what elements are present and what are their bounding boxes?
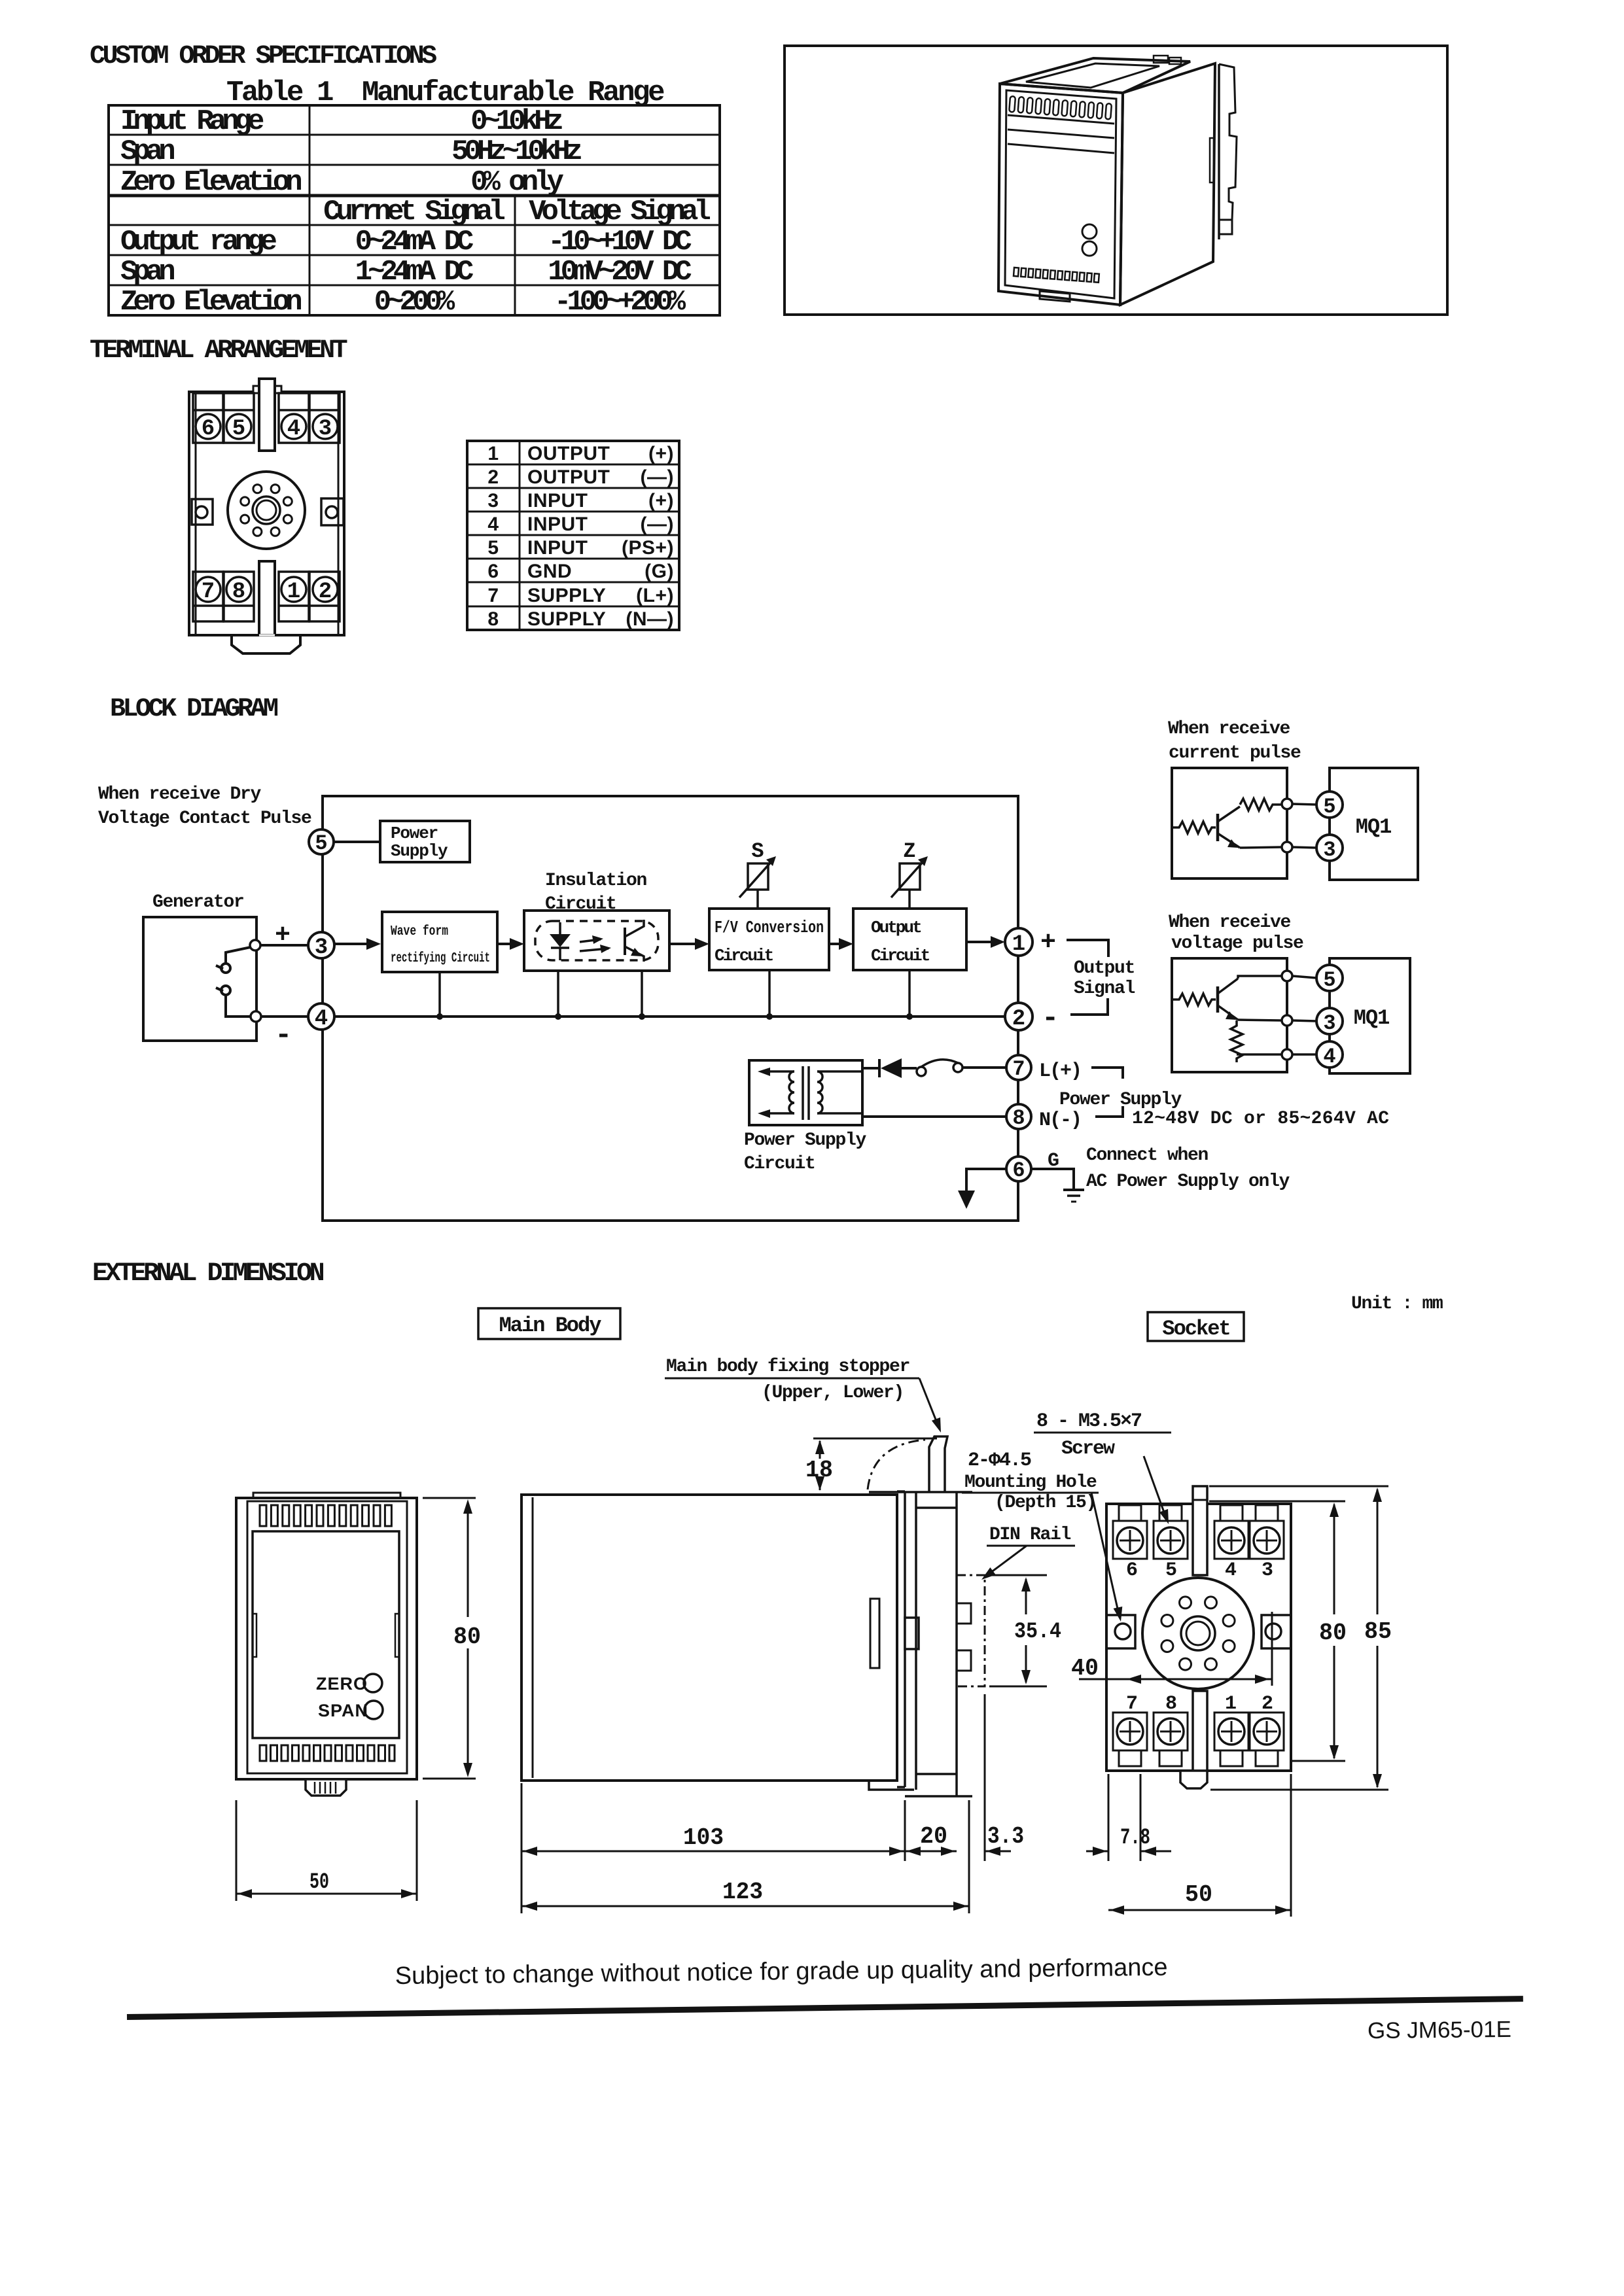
- stub: wave form block to return bus: [438, 972, 441, 1017]
- stub: output block to return bus: [908, 970, 911, 1017]
- dimension 18 (stopper height): [813, 1438, 937, 1490]
- trimmer S: [739, 861, 772, 897]
- stub: phototransistor emitter to return bus: [641, 971, 643, 1017]
- front adjuster holes: [1082, 224, 1097, 239]
- svg-text:(PS+): (PS+): [622, 537, 674, 559]
- svg-text:(N—): (N—): [626, 608, 674, 630]
- terminal 5 (voltage pulse): [1316, 965, 1343, 992]
- svg-text:8: 8: [232, 580, 245, 604]
- main body fixing stopper (side view): [929, 1436, 947, 1492]
- svg-text:Insulation: Insulation: [545, 871, 647, 891]
- junction node to pin 3 (voltage pulse): [1282, 1015, 1292, 1026]
- svg-text:2: 2: [1012, 1007, 1025, 1032]
- svg-text:3: 3: [1323, 1011, 1335, 1035]
- svg-text:50: 50: [309, 1870, 329, 1895]
- front bottom vent slots: [1014, 268, 1099, 283]
- terminal 4 (voltage pulse): [1316, 1041, 1343, 1069]
- socket top DIN tab: [1193, 1486, 1207, 1575]
- svg-text:1: 1: [1225, 1693, 1237, 1715]
- svg-text:4: 4: [1323, 1045, 1335, 1069]
- svg-text:5: 5: [1165, 1559, 1177, 1582]
- svg-text:1~24mA DC: 1~24mA DC: [355, 256, 474, 288]
- socket body outline: [189, 392, 344, 635]
- svg-text:Generator: Generator: [152, 892, 244, 913]
- svg-text:When receive: When receive: [1168, 719, 1290, 739]
- terminal 8: [1006, 1104, 1031, 1130]
- dimension 50 (socket width): [1108, 1774, 1291, 1917]
- terminal 6: [193, 393, 223, 443]
- svg-text:80: 80: [453, 1624, 481, 1650]
- svg-text:18: 18: [805, 1457, 833, 1484]
- svg-text:SUPPLY: SUPPLY: [527, 585, 606, 606]
- front view side latch notches: [253, 1614, 256, 1657]
- sender box (current pulse): [1172, 768, 1287, 878]
- side view body: [521, 1495, 897, 1781]
- svg-text:5: 5: [315, 831, 327, 856]
- svg-text:0% only: 0% only: [470, 166, 563, 199]
- ground note label: [1086, 1145, 1290, 1192]
- svg-text:GND: GND: [527, 561, 572, 582]
- transistor (voltage pulse): [1218, 979, 1238, 1020]
- transistor (current pulse): [1218, 807, 1240, 848]
- terminal 5: [309, 829, 334, 856]
- output circuit block: [853, 909, 966, 970]
- dimension 20: [905, 1851, 957, 1852]
- terminal 2: [1005, 1003, 1033, 1032]
- svg-text:2-Φ4.5: 2-Φ4.5: [968, 1450, 1031, 1472]
- svg-text:7.8: 7.8: [1120, 1826, 1150, 1851]
- screw terminal 2 (rear): [1250, 1713, 1284, 1766]
- dimension 80 (socket height): [1209, 1501, 1345, 1761]
- svg-text:7: 7: [487, 585, 499, 606]
- voltage pulse heading: [1169, 913, 1303, 954]
- terminal 5: [224, 393, 254, 443]
- DIN rail (phantom): [957, 1575, 985, 1686]
- svg-text:3: 3: [487, 490, 499, 512]
- socket pin holes (rear): [1161, 1597, 1235, 1670]
- wire: insulation to F/V conversion: [669, 943, 705, 945]
- svg-text:4: 4: [487, 513, 499, 535]
- stopper leader: [919, 1378, 938, 1426]
- dimension 123: [521, 1800, 969, 1913]
- wire: node to terminal 4 (voltage pulse): [1292, 1053, 1316, 1056]
- svg-text:L(+): L(+): [1039, 1060, 1081, 1083]
- wire: node to terminal 5 (current pulse): [1292, 804, 1316, 805]
- svg-text:Output: Output: [871, 918, 921, 937]
- svg-text:+: +: [1040, 928, 1056, 958]
- wire: terminal 5 to power supply block: [321, 841, 380, 843]
- svg-text:3: 3: [1323, 838, 1335, 862]
- svg-text:Signal: Signal: [1074, 979, 1135, 999]
- svg-text:7: 7: [1126, 1693, 1138, 1715]
- svg-text:5: 5: [487, 537, 499, 559]
- junction node to pin 5 (voltage pulse): [1282, 971, 1292, 981]
- power supply circuit label: [744, 1130, 867, 1174]
- socket bottom foot: [232, 635, 300, 653]
- svg-text:(—): (—): [641, 466, 674, 488]
- power supply block: [380, 821, 470, 862]
- wire: transformer to terminal 8: [862, 1115, 1006, 1118]
- junction node to pin 4 (voltage pulse): [1282, 1049, 1292, 1060]
- svg-text:When receive Dry: When receive Dry: [98, 784, 262, 805]
- terminal 7: [193, 572, 223, 621]
- dimension 3.3: [985, 1694, 1011, 1861]
- screw terminal 6 (rear): [1113, 1505, 1147, 1559]
- svg-text:7: 7: [202, 580, 215, 604]
- screw terminal 7 (rear): [1113, 1713, 1147, 1766]
- optocoupler LED: [559, 922, 561, 934]
- wire: terminal 6 to chassis arrow: [966, 1169, 1006, 1191]
- wire: shunt resistor to node 4 (voltage pulse): [1237, 1053, 1282, 1056]
- side view socket rear block: [869, 1492, 972, 1796]
- top clip details: [1154, 56, 1168, 63]
- current pulse heading: [1168, 719, 1301, 763]
- svg-text:2: 2: [1262, 1693, 1273, 1715]
- terminal 3 (current pulse): [1316, 835, 1343, 862]
- wire: emitter to node 3 (voltage pulse): [1238, 1020, 1282, 1020]
- terminal 4: [279, 393, 309, 443]
- svg-text:6: 6: [1012, 1158, 1025, 1183]
- screw terminal 3 (rear): [1250, 1505, 1284, 1559]
- svg-text:(+): (+): [648, 490, 674, 512]
- svg-text:MQ1: MQ1: [1356, 815, 1392, 839]
- collector resistor (current pulse): [1240, 799, 1282, 810]
- svg-text:MQ1: MQ1: [1354, 1006, 1390, 1030]
- svg-text:5: 5: [1323, 795, 1335, 819]
- trimmer Z: [891, 861, 924, 897]
- optocoupler light arrows: [580, 939, 601, 942]
- wire: node to terminal 5 (voltage pulse): [1292, 976, 1316, 978]
- svg-text:50: 50: [1185, 1881, 1212, 1908]
- terminal 2: [309, 572, 340, 621]
- F/V conversion circuit block: [709, 909, 829, 970]
- shunt resistor (voltage pulse): [1231, 1020, 1243, 1062]
- svg-text:S: S: [751, 839, 764, 863]
- output signal label: [1074, 958, 1135, 999]
- svg-text:3.3: 3.3: [987, 1823, 1024, 1850]
- side view front bezel line: [532, 1497, 534, 1778]
- dimension 103: [521, 1783, 905, 1913]
- 8 pin holes: [241, 485, 292, 536]
- svg-text:Output range: Output range: [120, 226, 276, 258]
- fuse: [917, 1060, 962, 1076]
- stub: F/V block to return bus: [768, 970, 771, 1017]
- socket front-view drawing: [167, 363, 383, 664]
- dimension 50 (front view width): [236, 1800, 417, 1901]
- svg-text:2: 2: [319, 580, 332, 604]
- wire: node to terminal 3 (voltage pulse): [1292, 1020, 1316, 1021]
- svg-text:103: 103: [683, 1824, 724, 1851]
- svg-text:Voltage Signal: Voltage Signal: [529, 196, 710, 228]
- bracket hook N(-): [1095, 1106, 1123, 1117]
- svg-text:Circuit: Circuit: [715, 946, 773, 965]
- terminal 1: [279, 572, 309, 621]
- svg-text:8 - M3.5×7: 8 - M3.5×7: [1036, 1410, 1141, 1433]
- front view inner bezel: [247, 1501, 407, 1773]
- wire: wave form to insulation circuit: [497, 943, 520, 945]
- front face: [998, 84, 1123, 305]
- front view bottom vent slots: [260, 1745, 395, 1761]
- wire: generator + to terminal 3: [260, 944, 321, 947]
- insulation circuit label: [545, 871, 647, 914]
- svg-text:When receive: When receive: [1169, 913, 1291, 933]
- svg-text:5: 5: [232, 417, 245, 442]
- wave form rectifying circuit block: [382, 912, 497, 972]
- svg-text:Main Body: Main Body: [499, 1313, 602, 1338]
- node label: When receive Dry Voltage Contact Pulse: [98, 784, 311, 829]
- wire: node to terminal 3 (current pulse): [1292, 847, 1316, 848]
- mounting hole leader: [1091, 1493, 1119, 1614]
- svg-text:3: 3: [1262, 1559, 1273, 1582]
- svg-text:Connect when: Connect when: [1086, 1145, 1209, 1166]
- svg-text:INPUT: INPUT: [527, 513, 588, 535]
- bracket hook L(+): [1091, 1068, 1123, 1079]
- svg-text:Output: Output: [1074, 958, 1135, 979]
- svg-text:OUTPUT: OUTPUT: [527, 443, 610, 464]
- side view rear bezel: [897, 1491, 919, 1787]
- screw spec leader: [1144, 1456, 1166, 1518]
- svg-text:0~10kHz: 0~10kHz: [470, 105, 562, 138]
- svg-text:6: 6: [487, 561, 499, 582]
- screw terminal 5 (rear): [1154, 1505, 1188, 1559]
- svg-text:INPUT: INPUT: [527, 490, 588, 512]
- svg-text:Currnet Signal: Currnet Signal: [323, 196, 504, 228]
- svg-text:Unit : mm: Unit : mm: [1351, 1294, 1443, 1314]
- generator + terminal: [250, 940, 260, 950]
- wire: trimmer Z to output block: [908, 890, 911, 909]
- dimension 40 (hole pitch): [1079, 1679, 1272, 1680]
- svg-text:80: 80: [1319, 1620, 1347, 1646]
- screw terminal 4 (rear): [1214, 1505, 1248, 1559]
- svg-text:-: -: [275, 1019, 292, 1052]
- svg-text:SUPPLY: SUPPLY: [527, 608, 606, 630]
- svg-text:Power Supply: Power Supply: [1059, 1090, 1182, 1110]
- svg-text:Main body fixing stopper: Main body fixing stopper: [666, 1357, 909, 1377]
- dimension 80 (front view height): [423, 1498, 476, 1779]
- left mounting hole (rear): [1106, 1615, 1135, 1648]
- svg-text:123: 123: [722, 1879, 763, 1905]
- insulation circuit block with optocoupler: [524, 911, 669, 971]
- generator - terminal: [251, 1011, 261, 1022]
- wire: trimmer S to F/V block: [756, 890, 759, 909]
- terminal assignment table: [461, 435, 687, 638]
- terminal 3: [309, 393, 340, 443]
- diode: [862, 1058, 917, 1078]
- socket centre boss (rear): [1142, 1578, 1254, 1689]
- input resistor (voltage pulse): [1172, 994, 1216, 1005]
- screw terminal 8 (rear): [1154, 1713, 1188, 1766]
- svg-text:+: +: [275, 921, 291, 950]
- svg-text:-: -: [1042, 1002, 1059, 1035]
- Socket caption box: [1148, 1312, 1244, 1341]
- svg-text:-10~+10V DC: -10~+10V DC: [548, 226, 692, 258]
- svg-text:8: 8: [1012, 1106, 1025, 1130]
- svg-text:1: 1: [287, 580, 300, 604]
- svg-text:10mV~20V DC: 10mV~20V DC: [548, 256, 692, 288]
- generator box: [143, 917, 256, 1041]
- wire: terminal 3 to wave form circuit: [334, 943, 377, 945]
- terminal 7: [1006, 1055, 1031, 1081]
- stopper swing arc (phantom): [868, 1440, 925, 1489]
- generator contact switch: [216, 947, 251, 1017]
- svg-text:40: 40: [1071, 1655, 1099, 1682]
- dimension 7.8: [1086, 1774, 1171, 1861]
- svg-text:Input Range: Input Range: [120, 105, 264, 138]
- output signal bracket bottom: [1070, 998, 1108, 1015]
- left mounting hole: [192, 499, 213, 525]
- svg-text:6: 6: [1126, 1559, 1138, 1582]
- svg-text:Span: Span: [120, 256, 174, 288]
- svg-text:85: 85: [1364, 1618, 1392, 1645]
- svg-text:(L+): (L+): [636, 585, 674, 606]
- svg-text:4: 4: [315, 1007, 328, 1032]
- front view top vent slots: [260, 1505, 391, 1526]
- terminal 8: [224, 572, 254, 621]
- svg-text:INPUT: INPUT: [527, 537, 588, 559]
- svg-text:AC Power Supply only: AC Power Supply only: [1086, 1172, 1290, 1192]
- output signal bracket top: [1067, 940, 1108, 957]
- terminal 6: [1006, 1157, 1031, 1183]
- front view top rim: [253, 1493, 400, 1498]
- signal return bus wire (terminal 4 to terminal 2): [334, 1015, 1006, 1018]
- svg-text:(+): (+): [648, 443, 674, 464]
- DIN rail grabs: [957, 1603, 971, 1624]
- side handle slot: [1210, 138, 1214, 183]
- svg-text:20: 20: [920, 1823, 947, 1850]
- svg-text:current pulse: current pulse: [1169, 743, 1301, 763]
- svg-text:Power: Power: [391, 824, 438, 843]
- power supply circuit transformer: [749, 1060, 862, 1125]
- svg-text:Socket: Socket: [1162, 1317, 1229, 1341]
- socket outline: [1106, 1504, 1291, 1771]
- optocoupler phototransistor: [624, 928, 626, 955]
- svg-text:-100~+200%: -100~+200%: [554, 286, 686, 319]
- svg-text:rectifying Circuit: rectifying Circuit: [391, 951, 490, 966]
- svg-text:8: 8: [1165, 1693, 1177, 1715]
- svg-text:(Upper, Lower): (Upper, Lower): [762, 1383, 904, 1403]
- front view outer case: [236, 1498, 417, 1779]
- junction node to pin 5 (current pulse): [1282, 799, 1292, 809]
- wire: F/V to output circuit: [829, 943, 849, 945]
- svg-text:35.4: 35.4: [1014, 1620, 1061, 1644]
- svg-text:8: 8: [487, 608, 499, 630]
- svg-text:N(-): N(-): [1039, 1109, 1081, 1132]
- input resistor (current pulse): [1172, 822, 1216, 833]
- front top vent loops: [1009, 96, 1112, 120]
- svg-text:Voltage Contact Pulse: Voltage Contact Pulse: [98, 809, 311, 829]
- right mounting hole (rear): [1262, 1615, 1291, 1648]
- chassis arrow symbol: [958, 1191, 975, 1209]
- rear DIN bracket: [1218, 64, 1220, 239]
- svg-text:(—): (—): [641, 513, 674, 535]
- svg-text:Circuit: Circuit: [871, 946, 930, 965]
- svg-text:SPAN: SPAN: [318, 1701, 368, 1720]
- svg-text:0~24mA DC: 0~24mA DC: [355, 226, 474, 258]
- svg-text:12~48V DC or 85~264V AC: 12~48V DC or 85~264V AC: [1132, 1109, 1389, 1129]
- wire: output circuit to terminal 1: [966, 941, 1001, 943]
- wire: generator - to terminal 4: [261, 1015, 321, 1018]
- MQ1 box (voltage pulse): [1330, 958, 1410, 1073]
- svg-text:4: 4: [1225, 1559, 1237, 1582]
- main unit enclosure box: [323, 796, 1018, 1221]
- junction node to pin 3 (current pulse): [1282, 842, 1292, 852]
- svg-text:DIN Rail: DIN Rail: [989, 1525, 1071, 1545]
- svg-text:3: 3: [315, 935, 328, 960]
- Table 1: [0, 0, 785, 340]
- svg-text:4: 4: [287, 417, 300, 442]
- svg-text:Circuit: Circuit: [744, 1154, 815, 1174]
- bottom DIN clip tab: [259, 561, 275, 646]
- wire: fuse to terminal 7: [962, 1066, 1006, 1069]
- svg-text:0~200%: 0~200%: [374, 286, 455, 319]
- wire: collector to node 5 (voltage pulse): [1238, 976, 1282, 979]
- front bottom tab: [1040, 291, 1070, 302]
- svg-text:OUTPUT: OUTPUT: [527, 466, 610, 488]
- svg-text:Mounting Hole: Mounting Hole: [964, 1472, 1097, 1493]
- stub: LED cathode to return bus: [557, 971, 559, 1017]
- dimension 35.4 (DIN rail): [989, 1575, 1047, 1686]
- screw terminal 1 (rear): [1214, 1713, 1248, 1766]
- socket bottom DIN tab: [1193, 1691, 1207, 1771]
- svg-text:ZERO: ZERO: [316, 1674, 368, 1694]
- svg-text:7: 7: [1012, 1057, 1025, 1081]
- terminal 4: [308, 1003, 334, 1032]
- terminal 3 (voltage pulse): [1316, 1008, 1343, 1035]
- svg-text:3: 3: [319, 417, 332, 442]
- svg-text:5: 5: [1323, 968, 1335, 992]
- side face: [1120, 63, 1215, 305]
- terminal 1: [1005, 928, 1033, 957]
- svg-text:Zero Elevation: Zero Elevation: [120, 286, 301, 319]
- svg-text:1: 1: [1012, 932, 1025, 957]
- terminal 3: [308, 932, 334, 960]
- sender box (voltage pulse): [1172, 958, 1287, 1072]
- svg-text:Supply: Supply: [391, 841, 448, 861]
- DIN rail leader: [985, 1546, 1027, 1576]
- svg-text:voltage pulse: voltage pulse: [1171, 933, 1303, 954]
- front view bottom tab: [306, 1779, 346, 1796]
- wire: emitter to node 3 (current pulse): [1240, 847, 1282, 848]
- centre octal boss: [228, 472, 305, 549]
- earth ground symbol: [1063, 1190, 1084, 1202]
- product module isometric view: [998, 56, 1237, 305]
- terminal 5 (current pulse): [1316, 791, 1343, 819]
- front bezel lines: [1008, 115, 1114, 124]
- wire: terminal 6 to earth ground: [1031, 1169, 1074, 1189]
- svg-text:Screw: Screw: [1061, 1438, 1115, 1460]
- Main Body caption box: [478, 1308, 620, 1339]
- top face: [1000, 58, 1190, 93]
- svg-text:(Depth 15): (Depth 15): [995, 1493, 1096, 1513]
- svg-text:6: 6: [202, 417, 215, 442]
- svg-text:Power Supply: Power Supply: [744, 1130, 867, 1151]
- svg-text:Zero Elevation: Zero Elevation: [120, 166, 301, 199]
- svg-text:2: 2: [487, 466, 499, 488]
- front view panel: [253, 1531, 399, 1738]
- svg-text:1: 1: [487, 443, 499, 464]
- top DIN clip tab: [253, 379, 281, 451]
- svg-text:F/V Conversion: F/V Conversion: [715, 918, 824, 937]
- right mounting hole: [321, 498, 344, 525]
- svg-text:Span: Span: [120, 135, 174, 168]
- MQ1 box (current pulse): [1330, 768, 1418, 880]
- svg-text:Wave form: Wave form: [391, 924, 448, 939]
- svg-text:(G): (G): [644, 561, 674, 582]
- svg-text:Z: Z: [903, 839, 915, 863]
- dimension 85 (socket overall height): [1209, 1486, 1388, 1790]
- svg-text:50Hz~10kHz: 50Hz~10kHz: [451, 135, 582, 168]
- side view handle slot: [870, 1599, 879, 1668]
